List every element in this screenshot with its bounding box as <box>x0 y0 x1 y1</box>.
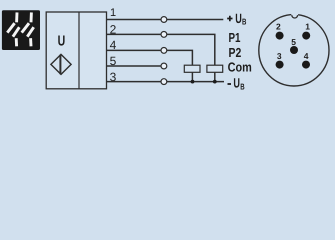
pin 1 dot <box>302 32 310 40</box>
icon stroke right: wire with double-slash break <box>22 12 34 46</box>
pin 3 dot <box>276 61 284 69</box>
svg-text:U: U <box>58 33 66 49</box>
svg-text:4: 4 <box>304 51 309 61</box>
sensor icon box (black) <box>2 10 40 50</box>
divider <box>78 12 80 89</box>
svg-text:P2: P2 <box>229 45 242 60</box>
svg-text:Com: Com <box>228 60 252 75</box>
pin 5 dot <box>290 46 298 54</box>
keyway notch <box>291 13 298 16</box>
terminal circle wire 3 <box>161 79 167 85</box>
resistor R2 <box>207 65 223 72</box>
net +UB <box>227 16 232 22</box>
terminal circle wire 2 <box>161 32 167 38</box>
svg-text:3: 3 <box>277 51 282 61</box>
svg-text:5: 5 <box>291 37 296 47</box>
transducer diamond symbol <box>51 54 71 74</box>
junction dot A <box>191 80 195 84</box>
net -UB <box>228 83 232 85</box>
wire 2 (P1) with bend down to resistor R2 <box>106 34 214 65</box>
svg-text:P1: P1 <box>229 30 241 45</box>
wire 4 (P2) with bend down to resistor R1 <box>106 50 192 65</box>
wire 5 (Com) <box>106 65 166 67</box>
wire 3 (-UB) <box>106 81 224 83</box>
svg-text:B: B <box>240 82 244 92</box>
svg-text:1: 1 <box>110 7 116 19</box>
junction dot B <box>213 80 217 84</box>
svg-text:U: U <box>235 11 242 26</box>
wire R1 bottom lead <box>191 72 193 81</box>
wires <box>106 20 224 82</box>
pin 2 dot <box>276 32 284 40</box>
svg-text:B: B <box>242 16 246 26</box>
pin 4 dot <box>302 61 310 69</box>
svg-text:1: 1 <box>305 22 310 32</box>
connection circles on wires <box>161 17 167 85</box>
resistor R1 <box>184 65 200 72</box>
connector outline <box>259 15 329 86</box>
icon stroke left: wire with double-slash break <box>7 12 19 46</box>
sensor body box U1 <box>46 12 106 89</box>
wire R2 bottom lead <box>214 72 216 81</box>
net labels <box>227 11 252 92</box>
wire 1 (+UB) <box>106 19 223 21</box>
svg-text:U: U <box>233 76 240 91</box>
terminal circle wire 5 <box>161 63 167 69</box>
terminal circle wire 4 <box>161 48 167 54</box>
terminal circle wire 1 <box>161 17 167 23</box>
connector face view <box>259 13 329 86</box>
svg-text:2: 2 <box>276 22 281 32</box>
pin numbers at box <box>110 7 117 84</box>
